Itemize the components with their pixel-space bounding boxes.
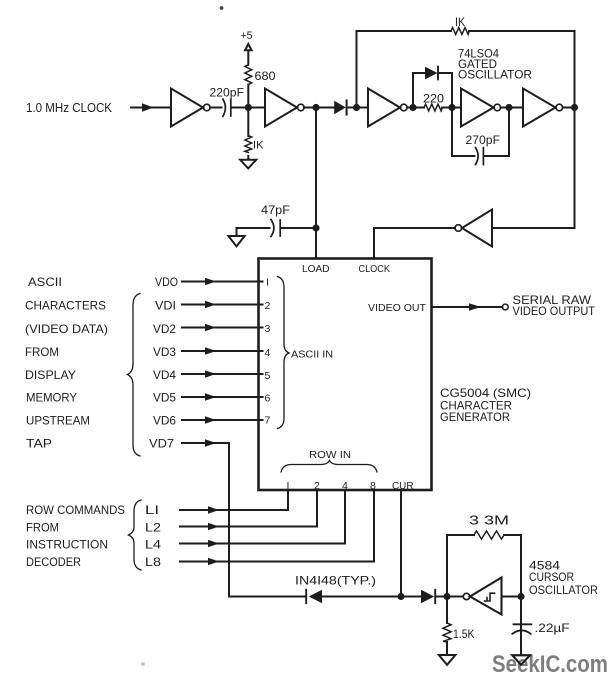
chip U3 CG5004 character generator: [259, 259, 432, 491]
svg-text:VD6: VD6: [153, 414, 176, 428]
wire VD5 pin 6: [182, 396, 263, 398]
svg-text:VDO: VDO: [155, 275, 178, 289]
wire row pin 4: [180, 490, 345, 544]
svg-text:MEMORY: MEMORY: [26, 391, 77, 405]
svg-text:L8: L8: [145, 555, 161, 569]
svg-text:2: 2: [314, 480, 320, 492]
node LOAD junction: [312, 104, 319, 111]
wire: [407, 107, 424, 109]
ground: [228, 236, 244, 246]
svg-text:7: 7: [265, 415, 271, 427]
svg-text:IN4I48(TYP.): IN4I48(TYP.): [295, 574, 376, 588]
svg-text:LOAD: LOAD: [302, 263, 330, 275]
svg-text:LI: LI: [145, 503, 159, 517]
svg-text:FROM: FROM: [26, 521, 59, 535]
diode D1: [334, 101, 346, 114]
node B: [353, 104, 360, 111]
svg-text:CHARACTERS: CHARACTERS: [25, 299, 106, 313]
svg-text:4: 4: [342, 480, 348, 492]
svg-text:4: 4: [265, 347, 271, 359]
wire: [304, 107, 334, 109]
brace L group: [129, 500, 142, 570]
svg-text:VD4: VD4: [153, 368, 176, 382]
wire LOAD vertical: [315, 108, 317, 259]
node G: [443, 593, 450, 600]
svg-text:OSCILLATOR: OSCILLATOR: [529, 583, 598, 597]
svg-text:+5: +5: [241, 30, 253, 42]
svg-text:.22µF: .22µF: [535, 621, 570, 635]
wire 1.0 MHz clock input: [131, 107, 171, 109]
wire 3.3M feedback: [447, 535, 521, 597]
op-amp U2C inverter: [523, 89, 556, 127]
node H: [517, 593, 524, 600]
svg-text:ROW IN: ROW IN: [309, 449, 351, 461]
wire: [231, 107, 265, 109]
svg-text:I: I: [287, 480, 290, 492]
svg-text:CURSOR: CURSOR: [529, 570, 574, 584]
wire: [502, 596, 521, 598]
op-amp U1B inverter: [265, 89, 297, 127]
capacitor 47pF: [271, 220, 274, 237]
resistor 1.5K: [443, 623, 451, 642]
resistor 1K feedback: [451, 28, 469, 35]
wire: [442, 107, 461, 109]
resistor 220: [424, 104, 442, 111]
svg-text:I: I: [266, 277, 269, 289]
op-amp U2A inverter: [368, 89, 400, 127]
svg-text:GENERATOR: GENERATOR: [440, 410, 510, 424]
capacitor .22uF: [514, 623, 532, 625]
svg-text:3 3M: 3 3M: [469, 513, 509, 528]
wire: [501, 107, 523, 109]
svg-text:IK: IK: [253, 140, 264, 152]
svg-text:CLOCK: CLOCK: [359, 263, 391, 275]
svg-text:220: 220: [423, 92, 444, 106]
wire 270pF branch: [452, 108, 509, 157]
node C: [409, 104, 416, 111]
svg-text:DISPLAY: DISPLAY: [25, 368, 76, 382]
wire VD0 pin 1: [182, 281, 263, 283]
brace ascii in: [278, 277, 290, 429]
ground: [439, 655, 456, 665]
resistor 680: [245, 65, 252, 85]
wire: [210, 107, 221, 109]
diode D4: [421, 590, 434, 603]
svg-text:VD2: VD2: [153, 322, 176, 336]
op-amp U4 4584 schmitt inverter: [463, 593, 469, 599]
svg-text:L4: L4: [145, 538, 161, 552]
wire: [563, 107, 575, 109]
svg-text:680: 680: [255, 69, 276, 83]
wire cap branch: [520, 597, 522, 656]
node speck top: [220, 6, 224, 10]
brace row in: [281, 461, 377, 473]
wire 1.5K branch: [446, 597, 448, 656]
diode D2: [425, 67, 437, 80]
ground: [512, 655, 530, 665]
svg-text:DECODER: DECODER: [26, 555, 81, 569]
svg-text:VIDEO OUT: VIDEO OUT: [368, 302, 427, 314]
svg-text:VDI: VDI: [155, 299, 176, 313]
node 47pF junction: [312, 224, 319, 231]
wire: [347, 107, 368, 109]
wire CUR pin: [400, 490, 402, 597]
svg-text:ASCII: ASCII: [28, 275, 62, 289]
svg-text:UPSTREAM: UPSTREAM: [26, 414, 90, 428]
svg-text:VD5: VD5: [153, 391, 176, 405]
node A: [245, 104, 252, 111]
wire VD3 pin 4: [182, 350, 263, 352]
svg-text:VD3: VD3: [153, 345, 176, 359]
svg-text:TAP: TAP: [26, 437, 52, 451]
node D: [448, 104, 455, 111]
wire VD2 pin 3: [182, 327, 263, 329]
svg-text:IK: IK: [455, 15, 465, 29]
capacitor 220pF: [223, 99, 226, 117]
svg-text:L2: L2: [145, 521, 161, 535]
node speck bottom left: [141, 662, 145, 666]
capacitor 270pF: [476, 148, 479, 165]
brace vd group: [128, 294, 141, 457]
wire row pin 1: [180, 490, 288, 510]
wire VD1 pin 2: [182, 304, 263, 306]
svg-text:OSCILLATOR: OSCILLATOR: [458, 68, 532, 82]
svg-text:SeekIC.com: SeekIC.com: [492, 651, 608, 678]
svg-text:1.0 MHz CLOCK: 1.0 MHz CLOCK: [26, 100, 112, 115]
ground overlay cursor cap: [512, 655, 530, 665]
wire clock to chip: [374, 228, 455, 258]
power +5: [245, 44, 252, 50]
wire diode bypass branch: [413, 73, 452, 108]
svg-text:6: 6: [265, 393, 271, 405]
wire feedback up: [357, 31, 575, 108]
ground: [240, 160, 256, 169]
wire: [237, 228, 313, 236]
wire row pin 8: [180, 490, 374, 562]
svg-text:3: 3: [265, 323, 271, 335]
svg-text:2: 2: [265, 300, 271, 312]
svg-text:FROM: FROM: [25, 345, 59, 359]
wire video out: [432, 306, 503, 308]
op-amp U2D clock inverter: [462, 210, 492, 247]
wire: [247, 108, 249, 160]
svg-text:(VIDEO DATA): (VIDEO DATA): [25, 322, 108, 336]
wire VD7 to cursor diode: [182, 443, 229, 597]
svg-text:8: 8: [370, 480, 376, 492]
node F: [571, 104, 578, 111]
svg-text:ROW COMMANDS: ROW COMMANDS: [26, 503, 125, 517]
svg-text:CUR: CUR: [392, 480, 414, 492]
wire VD6 pin 7: [182, 419, 263, 421]
wire VD4 pin 5: [182, 373, 263, 375]
op-amp U2B inverter: [461, 89, 494, 127]
wire right feedback vertical: [492, 31, 575, 228]
op-amp U1A inverter: [171, 89, 203, 127]
svg-text:VD7: VD7: [149, 437, 174, 451]
wire cursor row: [229, 596, 462, 598]
resistor 1K: [245, 136, 252, 153]
wire: [247, 50, 249, 107]
svg-text:1.5K: 1.5K: [453, 627, 475, 641]
svg-text:270pF: 270pF: [466, 133, 501, 147]
node CUR junction: [397, 593, 404, 600]
svg-text:220pF: 220pF: [210, 86, 245, 100]
svg-text:5: 5: [265, 370, 271, 382]
diode D3 IN4148: [309, 590, 322, 603]
svg-text:INSTRUCTION: INSTRUCTION: [26, 538, 108, 552]
svg-text:VIDEO OUTPUT: VIDEO OUTPUT: [513, 304, 596, 318]
svg-text:ASCII IN: ASCII IN: [291, 349, 333, 361]
node E: [505, 104, 512, 111]
wire row pin 2: [180, 490, 317, 527]
resistor 3.3M: [474, 531, 504, 539]
svg-text:47pF: 47pF: [261, 203, 290, 217]
